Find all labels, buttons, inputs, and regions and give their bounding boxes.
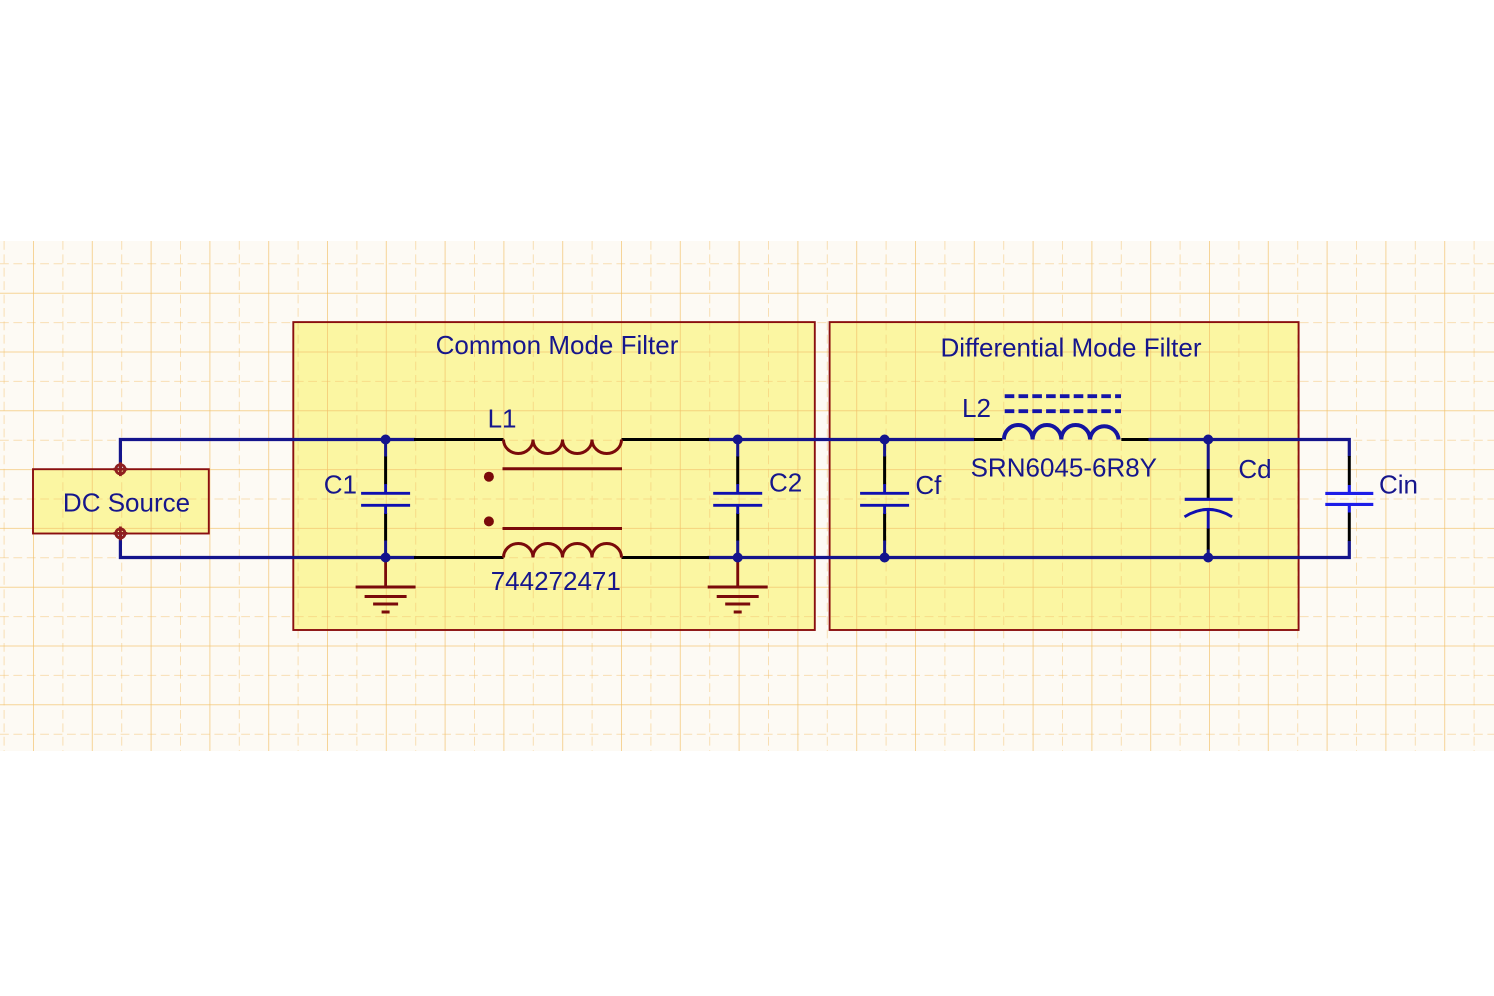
yellow region: Differential Mode Filter box fill [830, 322, 1299, 630]
pin: L1 bottom-right pin [622, 556, 710, 559]
pin: C1 bottom pin [384, 513, 387, 541]
L2 dashed bar lower [1005, 409, 1121, 413]
pin: Cin top pin [1348, 456, 1351, 485]
pin: Cf top pin [883, 457, 886, 485]
L1 core bar bottom [503, 527, 623, 530]
pin: L2 left pin [974, 438, 1002, 441]
capacitor C2 [713, 484, 762, 514]
wire: Cd vertical stub top [1207, 440, 1210, 470]
svg-text:DC Source: DC Source [63, 487, 190, 517]
Common Mode Filter box border [293, 322, 815, 630]
svg-text:Differential Mode Filter: Differential Mode Filter [940, 333, 1201, 363]
svg-text:Cin: Cin [1379, 470, 1418, 500]
junction node top Cf [880, 435, 890, 445]
capacitor Cin [1325, 485, 1373, 513]
pin: Cd top pin [1207, 469, 1210, 498]
pin: L1 top-right pin [622, 438, 710, 441]
yellow region: DC Source box fill [33, 469, 209, 533]
wire: C1 vertical stubs [384, 440, 387, 458]
wire: top rail between L1 and L2 [708, 438, 975, 441]
inductor L1 bottom winding [504, 544, 622, 558]
svg-text:C2: C2 [769, 468, 802, 498]
DC source top port crosshair [114, 462, 128, 476]
svg-text:C1: C1 [324, 470, 357, 500]
wire: DC source bottom to C1 bottom node (bottom rail left) [120, 533, 415, 557]
wire: Cd vertical stub bottom [1207, 549, 1210, 558]
wire: bottom rail from L1 to Cin corner [708, 541, 1350, 558]
capacitor C1 [361, 484, 410, 514]
svg-text:744272471: 744272471 [491, 566, 621, 596]
pin: L1 bottom-left pin [414, 556, 504, 559]
ground wire under C1 [384, 558, 387, 588]
wire: DC source top to C1 node (top rail left) [120, 440, 415, 470]
pin: Cin bottom pin [1348, 513, 1351, 542]
pin: Cd bottom pin [1207, 528, 1210, 550]
L1 core bar top [503, 467, 623, 470]
ground symbol under C1 [356, 587, 416, 612]
yellow region: Common Mode Filter box fill [293, 322, 815, 630]
junction node top C1 [381, 435, 391, 445]
pin: C2 top pin [736, 457, 739, 485]
junction node bottom C1 [381, 553, 391, 563]
grid solid lines [0, 241, 1494, 751]
junction node bottom Cd [1203, 553, 1213, 563]
L1 polarity dot bottom [484, 516, 494, 526]
inductor L2 [1004, 425, 1119, 440]
svg-text:Common Mode Filter: Common Mode Filter [436, 330, 679, 360]
junction node bottom Cf [880, 553, 890, 563]
pin: L1 top-left pin [414, 438, 504, 441]
pin: C1 top pin [384, 457, 387, 485]
L2 dashed bar upper [1005, 394, 1121, 398]
L1 polarity dot top [484, 472, 494, 482]
svg-text:Cf: Cf [915, 470, 942, 500]
wire: top rail from L2 to Cin corner [1149, 440, 1350, 457]
ground wire under C2 [736, 558, 739, 588]
Differential Mode Filter box border [830, 322, 1299, 630]
pin: Cf bottom pin [883, 513, 886, 541]
svg-text:SRN6045-6R8Y: SRN6045-6R8Y [971, 453, 1157, 483]
inductor L1 top winding [504, 440, 622, 454]
schematic sheet area [0, 241, 1494, 751]
junction node top C2 [733, 435, 743, 445]
DC Source box border [33, 469, 209, 533]
DC source bottom port crosshair [114, 527, 128, 541]
wire: C2 vertical stubs [736, 440, 739, 458]
wire: Cf vertical stubs [883, 440, 886, 458]
ground symbol under C2 [708, 587, 768, 612]
junction node top Cd [1203, 435, 1213, 445]
grid dashed lines [0, 241, 1494, 751]
capacitor Cd polarized [1185, 499, 1233, 528]
svg-text:L2: L2 [962, 393, 991, 423]
pin: L2 right pin [1121, 438, 1148, 441]
svg-text:L1: L1 [488, 403, 517, 433]
pin: C2 bottom pin [736, 513, 739, 541]
capacitor Cf [860, 484, 909, 514]
svg-text:Cd: Cd [1238, 454, 1271, 484]
junction node bottom C2 [733, 553, 743, 563]
